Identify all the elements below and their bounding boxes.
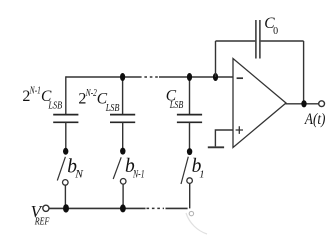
wire top rail dashed continuation <box>139 76 159 78</box>
capacitor C0 plates <box>256 20 260 59</box>
capacitor 2^(N-2)C_LSB plates <box>110 115 135 123</box>
watermark arc <box>186 213 207 234</box>
switch b1 bottom contact <box>187 178 193 184</box>
capacitor 2^(N-1)C_LSB plates <box>53 115 78 123</box>
wire riser to capacitor 1 top <box>65 76 67 114</box>
wire top rail right segment to op-amp inverting input <box>159 76 233 78</box>
switch bN bottom contact <box>63 180 69 186</box>
switch bN-1 bottom contact <box>120 179 126 185</box>
wire feedback tap rising from top rail <box>215 41 217 77</box>
svg-text:A(t): A(t) <box>304 111 325 128</box>
wire riser to capacitor 3 top <box>189 77 191 115</box>
wire capacitor 1 bottom to switch bN <box>65 122 67 148</box>
node junction top rail / feedback tap <box>213 73 218 81</box>
capacitor C_LSB plates <box>177 115 202 123</box>
wire bottom rail solid segment <box>49 207 145 209</box>
op-amp non-inverting input plus sign <box>236 126 243 134</box>
ground symbol <box>208 146 224 148</box>
wire capacitor 2 bottom to switch bN-1 <box>122 122 124 148</box>
wire non-inverting input to ground <box>215 130 233 146</box>
switch bN-1 top contact node <box>120 148 125 155</box>
wire switch bN-1 to bottom rail <box>122 184 124 208</box>
wire bottom rail dashed continuation <box>147 207 165 209</box>
wire op-amp output <box>286 103 319 105</box>
wire riser to capacitor 2 top <box>122 77 124 115</box>
wire switch b1 to bottom rail <box>189 184 191 209</box>
op-amp inverting input minus sign <box>237 77 243 79</box>
switch bN top contact node <box>63 148 68 155</box>
wire capacitor 3 bottom to switch b1 <box>189 122 191 149</box>
wire feedback right horizontal from C0 <box>261 40 304 42</box>
terminal V_REF open circle <box>43 205 49 211</box>
node junction top rail / capacitor 3 <box>187 73 192 81</box>
node junction bottom rail / switch bN <box>63 204 69 212</box>
node junction bottom rail / switch bN-1 <box>120 204 126 212</box>
switch bN lever <box>57 157 65 181</box>
wire feedback right vertical down to output <box>303 41 305 104</box>
node junction top rail / capacitor 2 <box>120 73 125 81</box>
wire top rail left segment <box>66 76 139 78</box>
switch b1 top contact node <box>187 148 192 155</box>
watermark small circle <box>189 211 193 215</box>
node junction output / feedback <box>301 100 306 107</box>
switch b1 lever <box>181 157 188 184</box>
switch bN-1 lever <box>113 157 121 179</box>
terminal A(t) open circle <box>319 101 325 107</box>
wire feedback left horizontal to C0 <box>216 40 256 42</box>
wire switch bN to bottom rail <box>64 185 66 208</box>
op-amp U1 triangle <box>233 59 286 148</box>
wire bottom rail right segment to switch b1 <box>166 207 188 209</box>
